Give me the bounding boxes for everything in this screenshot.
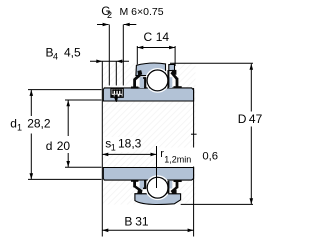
inner ring lower strip [103,168,193,181]
svg-text:M 6×0.75: M 6×0.75 [120,6,164,18]
d1 bottom extension [28,178,102,180]
D dimension line upper seg [250,64,252,112]
inner ring shoulder upper-right [169,77,172,88]
d1 top extension [28,89,102,91]
s1 arrows [102,153,108,157]
white knockout behind r text [158,148,196,167]
svg-text:1: 1 [111,142,116,152]
svg-text:D: D [238,112,247,126]
outer ring upper arch [136,63,166,76]
svg-text:2: 2 [107,10,112,20]
D top extension [170,62,253,64]
svg-text:47: 47 [249,112,263,126]
B4 dimension line [90,60,129,62]
d arrows [66,100,70,106]
svg-text:31: 31 [135,215,149,229]
B4 right extension line [115,61,117,85]
svg-text:28,2: 28,2 [27,117,51,131]
grub screw [111,88,123,102]
B/B4 left extension line [101,61,103,236]
arrowheads [30,23,254,232]
d1 dimension line lower seg [30,134,32,180]
svg-text:B: B [124,215,132,229]
lower ball radius line (s1 centre line) [156,146,158,188]
B right extension line (lower part) [193,167,195,237]
svg-text:4,5: 4,5 [64,45,81,59]
svg-text:20: 20 [57,139,71,153]
d1 dimension line upper seg [30,90,32,116]
ball lower [147,177,168,198]
svg-text:14: 14 [156,30,170,44]
hatched backdrop region [103,63,196,205]
C left extension [136,46,138,64]
svg-text:d: d [46,139,53,153]
svg-text:C: C [144,30,153,44]
ball upper [147,70,168,91]
svg-text:1: 1 [17,123,22,133]
B arrows [102,229,108,233]
d bottom extension [65,166,102,168]
seal upper-left [131,70,146,89]
svg-text:0,6: 0,6 [202,150,218,162]
seal upper-right [167,70,181,89]
B right extension line (upper part) [193,88,195,148]
inner ring shoulder lower-right [169,181,172,189]
C dimension line [137,47,175,49]
M arrow tail [124,24,137,26]
lower raceway gap [146,176,170,200]
upper raceway gap (white ring around ball seat) [146,69,170,93]
d1 arrows [30,90,34,96]
M leader [122,25,124,86]
inner ring upper strip [103,88,193,101]
svg-text:4: 4 [53,52,58,62]
C right extension [174,46,176,66]
centre tick on B right extension [191,133,197,135]
seal lower-left [131,180,146,194]
outer ring lower [135,194,181,205]
seal lower-right [167,180,181,194]
G2 leader [108,25,110,86]
svg-text:d: d [10,117,17,131]
d top extension [65,99,102,101]
G2 arrow [103,23,109,27]
white knockout behind s1 text [104,137,136,152]
G2 arrow tail [97,24,109,26]
d dimension line lower seg [67,153,69,167]
svg-text:1,2min: 1,2min [164,155,191,165]
inner ring shoulder lower-left [140,181,145,189]
svg-text:18,3: 18,3 [118,136,142,150]
D arrows [250,64,254,70]
D dimension line lower seg [250,127,252,205]
s1 dimension line [102,153,156,155]
B dimension line [102,229,193,231]
B4 arrows [96,60,102,64]
M arrow [124,23,130,27]
C arrows [137,46,143,50]
inner ring shoulder upper-left [140,77,145,88]
d dimension line upper seg [67,100,69,136]
D bottom extension [181,203,253,205]
outer ring upper-right lip piece [169,64,175,70]
